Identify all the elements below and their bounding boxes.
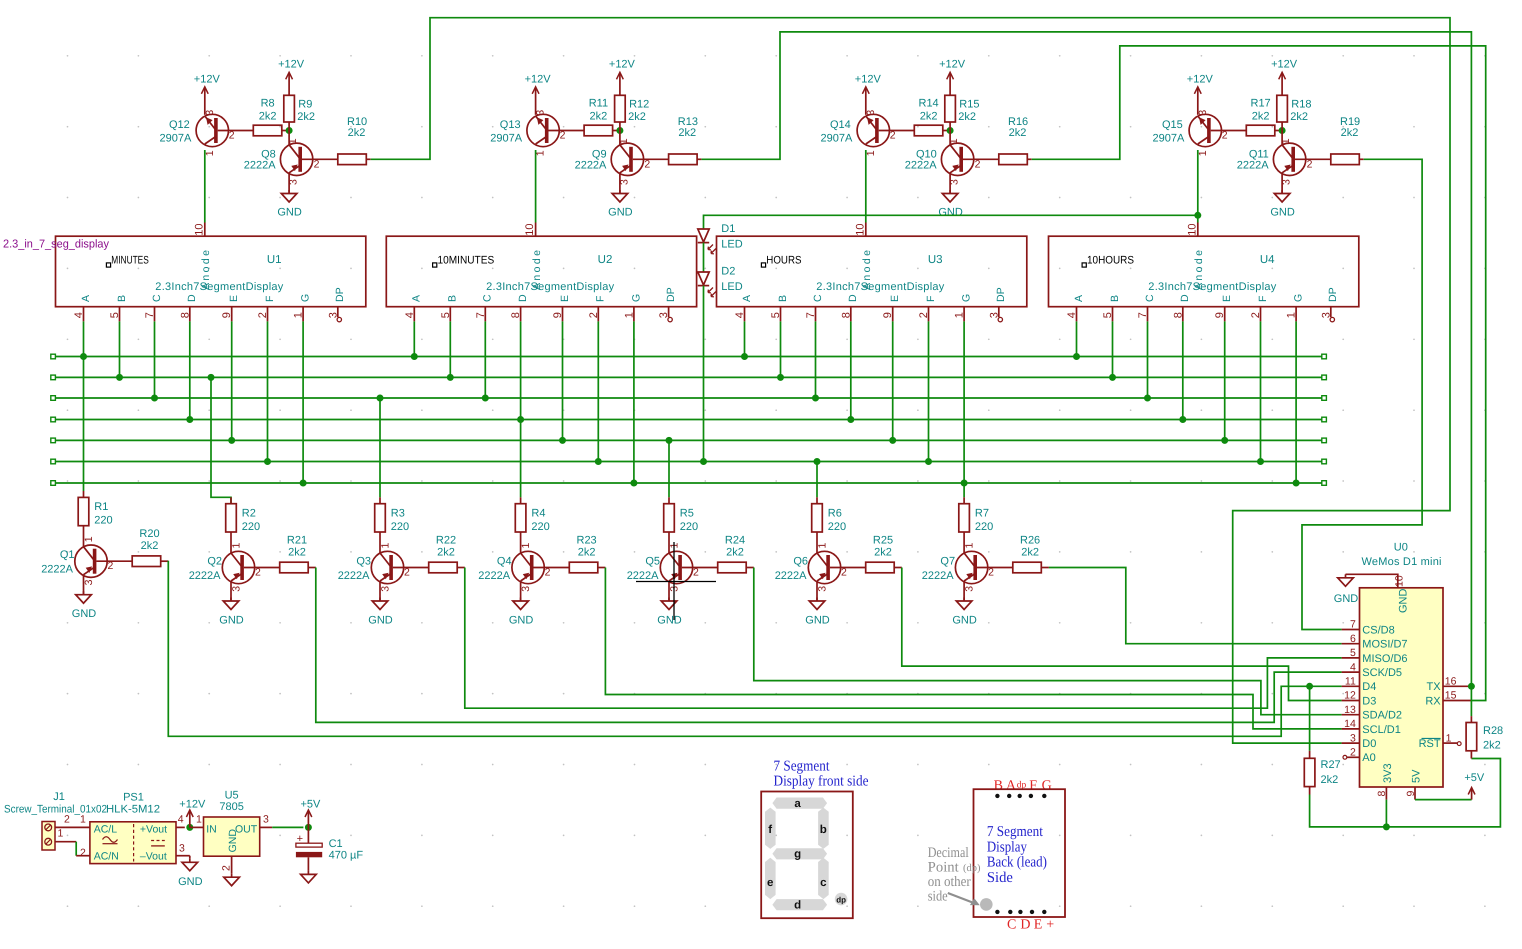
svg-text:IN: IN xyxy=(206,824,217,836)
svg-text:3: 3 xyxy=(263,814,269,826)
junction R11/R12/Q9 xyxy=(616,127,623,134)
svg-text:2k2: 2k2 xyxy=(590,111,608,123)
svg-text:MINUTES: MINUTES xyxy=(111,254,149,266)
U0 pin 8 (3V3) xyxy=(1376,763,1394,799)
svg-text:Display front side: Display front side xyxy=(774,774,869,790)
segment a xyxy=(772,798,827,811)
ground GND (Q5 emitter) xyxy=(657,581,682,627)
svg-text:e: e xyxy=(767,877,773,889)
svg-text:1: 1 xyxy=(196,814,202,826)
svg-text:D: D xyxy=(517,294,529,302)
svg-text:2: 2 xyxy=(545,566,551,578)
junction 3V3 / bottom wire xyxy=(1383,823,1390,830)
U3 pin 8 (D) xyxy=(840,294,859,321)
svg-text:Screw_Terminal_01x02: Screw_Terminal_01x02 xyxy=(4,803,107,815)
node label 10HOURS xyxy=(1082,254,1134,267)
svg-text:R14: R14 xyxy=(919,98,939,110)
ground GND (Q10 emitter) xyxy=(938,173,963,219)
wire 3V3 pin to ground bus xyxy=(1385,800,1387,827)
svg-text:B: B xyxy=(447,295,459,302)
svg-text:1: 1 xyxy=(287,138,299,144)
wire 5V pin to +5V symbol xyxy=(1415,799,1472,801)
wire U4 pin D to bus / junction xyxy=(1179,321,1186,423)
svg-text:B: B xyxy=(116,295,128,302)
wire R16 output to RX (net DIG3) xyxy=(1032,46,1486,701)
svg-text:R3: R3 xyxy=(391,507,405,519)
svg-text:G: G xyxy=(300,294,312,302)
transistor Q4 2222A NPN xyxy=(478,543,569,592)
wire bus G (U3 pin G) to R7 xyxy=(963,483,965,497)
svg-text:16: 16 xyxy=(1445,676,1457,688)
svg-text:2: 2 xyxy=(1250,312,1262,318)
wire R27 bottom to ground bus xyxy=(1310,759,1501,827)
svg-text:2: 2 xyxy=(890,130,896,142)
svg-text:dp: dp xyxy=(836,895,846,904)
resistor R27 2k2 xyxy=(1304,751,1340,795)
U2 pin name Anode xyxy=(531,250,543,290)
svg-text:3V3: 3V3 xyxy=(1382,763,1394,783)
svg-text:Display: Display xyxy=(987,839,1027,855)
svg-text:A: A xyxy=(411,295,423,302)
annotation arrow to decimal point xyxy=(948,893,980,905)
U5 pin 1 (IN) xyxy=(190,814,204,828)
svg-text:3: 3 xyxy=(1320,312,1332,318)
svg-text:5: 5 xyxy=(1350,647,1356,659)
U3 pin 7 (C) xyxy=(805,294,824,321)
wire U5 OUT to C1 / +5V xyxy=(272,826,303,828)
svg-text:9: 9 xyxy=(1214,312,1226,318)
svg-text:R6: R6 xyxy=(828,507,842,519)
U3 pin name Anode xyxy=(861,250,873,290)
svg-text:2: 2 xyxy=(1222,130,1228,142)
svg-text:2222A: 2222A xyxy=(478,570,510,582)
svg-text:1: 1 xyxy=(80,814,86,826)
svg-text:D3: D3 xyxy=(1362,695,1376,707)
svg-text:U0: U0 xyxy=(1394,542,1408,554)
svg-text:AC/N: AC/N xyxy=(94,850,119,862)
U0 WeMos D1 mini body xyxy=(1360,588,1444,787)
svg-text:Q10: Q10 xyxy=(916,148,937,160)
wire bus segment line C xyxy=(51,396,1327,401)
wire U1 pin A to bus / junction xyxy=(80,321,87,360)
transistor Q6 2222A NPN xyxy=(775,543,866,592)
svg-text:R2: R2 xyxy=(242,507,256,519)
wire U4 pin B to bus / junction xyxy=(1109,321,1116,381)
svg-text:2222A: 2222A xyxy=(775,570,807,582)
U3 pin 3 (DP) xyxy=(988,287,1007,321)
wire bus B tap to R2 / junction xyxy=(208,374,232,504)
svg-text:2k2: 2k2 xyxy=(1321,774,1339,786)
wire R23 to SCL/D1 (net SEG-D) xyxy=(605,568,1341,729)
svg-text:2k2: 2k2 xyxy=(437,546,455,558)
segment d xyxy=(772,899,827,912)
back side bottom pin dots xyxy=(995,910,1046,914)
svg-text:2: 2 xyxy=(841,566,847,578)
wire R22 to MISO/D6 (net SEG-C) xyxy=(465,568,1342,709)
svg-text:Q3: Q3 xyxy=(356,556,371,568)
svg-text:2: 2 xyxy=(64,814,70,826)
svg-text:U3: U3 xyxy=(928,254,943,266)
transistor Q7 2222A NPN xyxy=(922,543,1013,592)
wire Q13 collector to U2 Anode xyxy=(535,150,537,223)
transistor Q12 2907A PNP xyxy=(159,110,253,157)
back side top pin dots xyxy=(995,794,1046,798)
svg-text:+12V: +12V xyxy=(939,59,966,71)
node label MINUTES xyxy=(106,254,148,267)
svg-text:Side: Side xyxy=(987,870,1013,886)
svg-text:R26: R26 xyxy=(1020,535,1040,547)
svg-text:GND: GND xyxy=(805,615,830,627)
junction TX / R28 xyxy=(1468,683,1475,690)
svg-text:2222A: 2222A xyxy=(575,160,607,172)
svg-text:GND: GND xyxy=(277,207,302,219)
wire R13 output to TX (net DIG2) xyxy=(702,32,1472,686)
svg-text:A: A xyxy=(80,295,92,302)
svg-text:GND: GND xyxy=(227,829,239,853)
svg-text:3: 3 xyxy=(1350,732,1356,744)
U3 pin 2 (F) xyxy=(918,296,937,322)
wire U3 pin G to bus / junction xyxy=(961,321,968,486)
svg-text:2.3_in_7_seg_display: 2.3_in_7_seg_display xyxy=(3,239,109,251)
svg-text:R11: R11 xyxy=(589,98,608,110)
diode D1 LED xyxy=(698,223,743,254)
svg-text:10: 10 xyxy=(854,223,866,235)
junction R8/R9/Q8 xyxy=(286,127,293,134)
wire U1 pin C to bus / junction xyxy=(151,321,158,401)
svg-text:2907A: 2907A xyxy=(820,132,852,144)
U0 pin 15 (RX) xyxy=(1425,690,1471,708)
U3 reference designator xyxy=(928,254,943,266)
U2 pin 1 (G) xyxy=(623,294,642,321)
svg-text:2: 2 xyxy=(80,847,86,859)
svg-text:GND: GND xyxy=(219,615,244,627)
svg-text:2907A: 2907A xyxy=(490,132,522,144)
U1 pin 7 (C) xyxy=(144,294,163,321)
U0 value label xyxy=(1362,556,1442,568)
svg-text:+12V: +12V xyxy=(278,59,305,71)
wire D1 cathode to D2 anode xyxy=(703,243,705,272)
U1 pin 9 (E) xyxy=(221,295,240,321)
svg-text:GND: GND xyxy=(938,207,963,219)
ground GND (Q2 emitter) xyxy=(219,581,244,627)
svg-text:C: C xyxy=(1144,294,1156,302)
ground GND (Q7 emitter) xyxy=(952,581,977,627)
svg-text:470 µF: 470 µF xyxy=(329,850,364,862)
transistor Q2 2222A NPN xyxy=(189,543,280,592)
wire U2 pin E to bus / junction xyxy=(559,321,566,444)
svg-text:Q12: Q12 xyxy=(169,119,190,131)
svg-text:E: E xyxy=(889,295,901,302)
svg-text:GND: GND xyxy=(608,207,633,219)
svg-text:Anode: Anode xyxy=(200,250,212,290)
wire bus segment line D xyxy=(51,417,1327,422)
svg-text:GND: GND xyxy=(1270,207,1295,219)
svg-text:2.3Inch7SegmentDisplay: 2.3Inch7SegmentDisplay xyxy=(155,281,283,293)
svg-text:LED: LED xyxy=(721,239,742,251)
svg-text:Q8: Q8 xyxy=(261,148,276,160)
svg-text:A0: A0 xyxy=(1362,752,1375,764)
svg-text:1: 1 xyxy=(58,828,64,840)
svg-text:2k2: 2k2 xyxy=(726,546,744,558)
svg-text:+12V: +12V xyxy=(1187,73,1214,85)
U1 reference designator xyxy=(267,254,282,266)
svg-text:b: b xyxy=(820,824,827,836)
U0 pin 13 (SDA/D2) xyxy=(1342,704,1402,722)
svg-text:2222A: 2222A xyxy=(922,570,954,582)
svg-text:2: 2 xyxy=(988,566,994,578)
svg-text:2: 2 xyxy=(404,566,410,578)
svg-text:GND: GND xyxy=(178,876,203,888)
svg-text:4: 4 xyxy=(1066,312,1078,318)
svg-text:4: 4 xyxy=(73,312,85,318)
ground GND (Q6 emitter) xyxy=(805,581,830,627)
wire bus C tap to R3 / junction xyxy=(377,395,384,498)
power +5V (U5 output) xyxy=(300,799,321,828)
wire bus segment line A xyxy=(51,354,1327,359)
svg-text:1: 1 xyxy=(816,543,828,549)
svg-text:R22: R22 xyxy=(436,535,456,547)
svg-text:2907A: 2907A xyxy=(159,132,191,144)
svg-text:Anode: Anode xyxy=(531,250,543,290)
svg-text:2k2: 2k2 xyxy=(874,546,892,558)
U1 pin 3 (DP) xyxy=(327,287,346,321)
segment dp xyxy=(835,893,848,906)
svg-text:2: 2 xyxy=(229,130,235,142)
svg-text:RST: RST xyxy=(1419,738,1441,750)
U4 value label xyxy=(1148,281,1277,293)
resistor R13 2k2 xyxy=(669,116,702,165)
svg-text:2: 2 xyxy=(1350,747,1356,759)
wire U3 pin C to bus / junction xyxy=(812,321,819,401)
front side display outline box xyxy=(761,792,853,919)
svg-text:U5: U5 xyxy=(225,790,239,802)
svg-text:+12V: +12V xyxy=(609,59,636,71)
wire U1 pin E to bus / junction xyxy=(228,321,235,444)
svg-text:R5: R5 xyxy=(680,507,694,519)
wire U1 pin B to bus / junction xyxy=(116,321,123,381)
svg-text:2: 2 xyxy=(221,865,233,871)
U2 pin 5 (B) xyxy=(440,295,459,321)
wire TX junction to R28 xyxy=(1470,686,1472,716)
svg-text:12: 12 xyxy=(1344,690,1356,702)
U5 pin 2 (GND) xyxy=(221,856,233,874)
wire U2 pin B to bus / junction xyxy=(447,321,454,381)
svg-text:2222A: 2222A xyxy=(627,570,659,582)
U3 pin 4 (A) xyxy=(734,295,753,321)
regulator U5 7805 xyxy=(204,790,260,857)
svg-text:C: C xyxy=(151,294,163,302)
svg-text:10: 10 xyxy=(524,223,536,235)
U1 value label xyxy=(155,281,283,293)
ground GND (Q8 emitter) xyxy=(277,173,302,219)
annotation: 7 Segment Display front side title xyxy=(774,759,869,790)
wire U4 pin E to bus / junction xyxy=(1221,321,1228,444)
svg-text:HOURS: HOURS xyxy=(766,254,801,266)
resistor R11 2k2 xyxy=(584,98,620,136)
U5 pin 3 (OUT) xyxy=(260,814,273,828)
svg-text:1: 1 xyxy=(379,543,391,549)
svg-text:2k2: 2k2 xyxy=(958,111,976,123)
transistor Q1 2222A NPN xyxy=(41,536,132,585)
svg-text:3: 3 xyxy=(535,110,547,116)
U1 pin 2 (F) xyxy=(257,296,276,322)
svg-text:R12: R12 xyxy=(629,99,649,111)
svg-text:WeMos D1 mini: WeMos D1 mini xyxy=(1362,556,1442,568)
svg-text:8: 8 xyxy=(1172,312,1184,318)
resistor R2 220 xyxy=(226,497,260,553)
svg-text:D2: D2 xyxy=(721,265,735,277)
U2 pin 2 (F) xyxy=(588,296,607,322)
svg-text:Q5: Q5 xyxy=(645,556,660,568)
resistor R19 2k2 xyxy=(1331,116,1364,165)
svg-text:+5V: +5V xyxy=(1464,772,1485,784)
svg-text:1: 1 xyxy=(948,138,960,144)
power +5V (U0 5V pin) xyxy=(1464,772,1485,800)
power +12V (Q15 emitter) xyxy=(1187,73,1214,115)
resistor R22 2k2 xyxy=(429,535,465,573)
svg-text:d: d xyxy=(794,900,801,912)
resistor R4 220 xyxy=(515,497,549,553)
svg-text:2k2: 2k2 xyxy=(141,540,159,552)
ground GND (Q4 emitter) xyxy=(509,581,534,627)
svg-text:9: 9 xyxy=(552,312,564,318)
power +12V (Q13 emitter) xyxy=(525,73,552,115)
svg-text:5: 5 xyxy=(1102,312,1114,318)
svg-text:6: 6 xyxy=(1350,633,1356,645)
junction +5V node xyxy=(305,824,312,831)
segment b xyxy=(818,808,829,849)
U0 pin 4 (SCK/D5) xyxy=(1342,661,1402,679)
power +12V (PS1 output) xyxy=(179,799,206,828)
svg-text:Q11: Q11 xyxy=(1249,148,1269,160)
svg-text:PS1: PS1 xyxy=(123,792,144,804)
svg-text:2: 2 xyxy=(693,566,699,578)
svg-text:f: f xyxy=(768,824,772,836)
svg-text:3: 3 xyxy=(658,312,670,318)
ground GND (U0 pin 10) xyxy=(1334,574,1359,605)
svg-text:10: 10 xyxy=(193,223,205,235)
svg-text:8: 8 xyxy=(179,312,191,318)
transistor Q9 2222A NPN xyxy=(575,131,669,186)
svg-text:D: D xyxy=(847,294,859,302)
transistor Q10 2222A NPN xyxy=(905,131,999,186)
svg-text:1: 1 xyxy=(954,312,966,318)
wire U4 pin F to bus / junction xyxy=(1257,321,1264,465)
svg-text:2k2: 2k2 xyxy=(288,546,306,558)
wire bus segment line B xyxy=(51,375,1327,380)
svg-text:D: D xyxy=(186,294,198,302)
svg-text:Back (lead): Back (lead) xyxy=(987,855,1047,871)
U0 pin 2 (A0) xyxy=(1343,747,1376,765)
svg-text:2222A: 2222A xyxy=(338,570,370,582)
svg-text:B: B xyxy=(1109,295,1121,302)
svg-text:R21: R21 xyxy=(287,535,307,547)
PS1 pin 4 (+Vout) xyxy=(176,814,185,828)
wire bus segment line E xyxy=(51,438,1327,443)
segment f xyxy=(765,808,776,849)
svg-text:G: G xyxy=(1042,779,1052,794)
svg-text:GND: GND xyxy=(1334,593,1359,605)
U4 pin 9 (E) xyxy=(1214,295,1233,321)
wire U3 pin E to bus / junction xyxy=(889,321,896,444)
svg-text:3: 3 xyxy=(988,312,1000,318)
svg-text:14: 14 xyxy=(1344,718,1356,730)
svg-text:R27: R27 xyxy=(1321,759,1341,771)
svg-text:10: 10 xyxy=(1394,575,1406,587)
svg-text:7: 7 xyxy=(475,312,487,318)
svg-text:GND: GND xyxy=(368,615,393,627)
svg-text:7805: 7805 xyxy=(219,801,243,813)
PS1 pin 3 (-Vout) xyxy=(176,843,190,856)
svg-text:4: 4 xyxy=(404,312,416,318)
svg-text:3: 3 xyxy=(963,586,975,592)
svg-text:2k2: 2k2 xyxy=(348,127,366,139)
resistor R6 220 xyxy=(812,497,846,553)
svg-text:220: 220 xyxy=(94,515,112,527)
U4 2.3 inch 7-segment display box xyxy=(1049,236,1359,307)
svg-text:C: C xyxy=(482,294,494,302)
svg-text:R20: R20 xyxy=(139,528,159,540)
resistor R12 2k2 xyxy=(615,95,650,130)
svg-text:G: G xyxy=(961,294,973,302)
svg-text:Anode: Anode xyxy=(1193,250,1205,290)
svg-text:7 Segment: 7 Segment xyxy=(987,824,1044,840)
svg-text:E: E xyxy=(1034,917,1043,932)
PS1 pins 1 2 labels xyxy=(80,814,90,860)
resistor R14 2k2 xyxy=(914,98,950,136)
svg-text:5: 5 xyxy=(109,312,121,318)
svg-text:2.3Inch7SegmentDisplay: 2.3Inch7SegmentDisplay xyxy=(1148,281,1277,293)
svg-text:DP: DP xyxy=(1327,287,1339,302)
U4 pin 3 (DP) xyxy=(1320,287,1339,321)
svg-text:SDA/D2: SDA/D2 xyxy=(1362,710,1402,722)
U3 2.3 inch 7-segment display box xyxy=(717,236,1027,307)
wire bus A to R1 xyxy=(83,357,85,492)
svg-text:10HOURS: 10HOURS xyxy=(1087,254,1134,266)
wire R20 to D4 (net SEG-A) xyxy=(168,561,1341,737)
ground GND (Q11 emitter) xyxy=(1270,173,1295,219)
svg-text:2: 2 xyxy=(975,159,981,171)
wire U2 pin D to bus / junction xyxy=(517,321,524,423)
resistor R1 220 xyxy=(78,491,112,547)
svg-text:10: 10 xyxy=(1186,223,1198,235)
svg-text:8: 8 xyxy=(1376,791,1388,797)
transistor Q13 2907A PNP xyxy=(490,110,584,157)
svg-text:E: E xyxy=(559,295,571,302)
resistor R17 2k2 xyxy=(1246,98,1282,136)
svg-text:DP: DP xyxy=(665,287,677,302)
wire bus E tap to R5 / junction xyxy=(666,437,673,497)
svg-text:RX: RX xyxy=(1425,695,1441,707)
svg-text:GND: GND xyxy=(952,615,977,627)
svg-text:1: 1 xyxy=(623,312,635,318)
svg-text:R4: R4 xyxy=(531,507,545,519)
resistor R5 220 xyxy=(664,497,698,553)
svg-text:A: A xyxy=(1006,779,1017,794)
svg-text:D0: D0 xyxy=(1362,738,1376,750)
svg-text:8: 8 xyxy=(840,312,852,318)
svg-text:SCK/D5: SCK/D5 xyxy=(1362,667,1402,679)
svg-text:side: side xyxy=(928,888,948,904)
wire U1 pin F to bus / junction xyxy=(264,321,271,465)
wire U2 pin G to bus / junction xyxy=(630,321,637,486)
svg-text:Q15: Q15 xyxy=(1162,119,1183,131)
svg-text:DP: DP xyxy=(995,287,1007,302)
U2 pin 3 (DP) xyxy=(658,287,677,321)
node label HOURS xyxy=(761,254,801,267)
svg-text:1: 1 xyxy=(1446,732,1452,744)
svg-text:4: 4 xyxy=(1350,661,1356,673)
